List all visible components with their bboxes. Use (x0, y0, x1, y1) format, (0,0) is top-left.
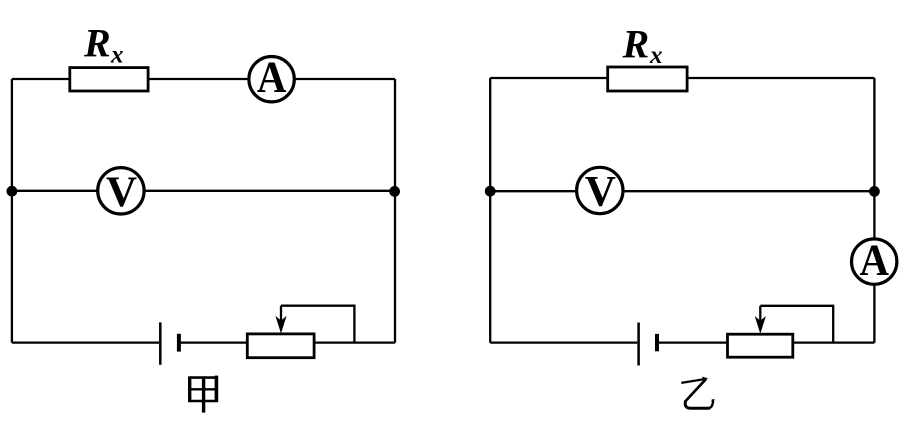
svg-text:A: A (859, 235, 889, 284)
svg-text:V: V (585, 169, 616, 216)
svg-text:A: A (257, 53, 287, 102)
svg-text:x: x (649, 42, 663, 69)
svg-text:R: R (83, 21, 111, 66)
svg-text:V: V (106, 169, 137, 216)
svg-text:x: x (110, 42, 124, 69)
svg-text:R: R (622, 22, 650, 67)
